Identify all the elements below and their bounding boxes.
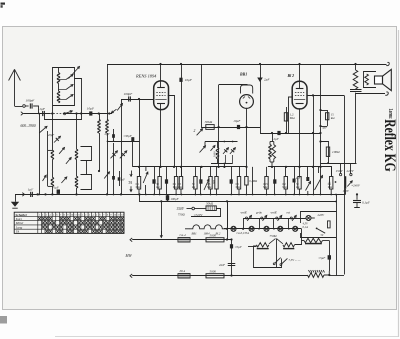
capacitor row x=166.5 bbox=[166, 167, 168, 195]
wire anode to bottom right bbox=[344, 95, 346, 274]
wire heater winding right bbox=[324, 271, 329, 275]
svg-text:Reflex KG: Reflex KG bbox=[381, 119, 398, 172]
node screen tap bbox=[180, 63, 182, 65]
wire y163 link bbox=[321, 163, 357, 165]
selector bottom loop bbox=[254, 246, 282, 268]
wire drop x252 bbox=[252, 167, 254, 195]
wire waveband left vertical bbox=[39, 114, 41, 195]
choke Ca4 bbox=[178, 238, 190, 242]
capacitor 5uF on x231 bbox=[230, 244, 233, 248]
resistor 600 row bbox=[216, 167, 218, 177]
IF trimmer b bbox=[230, 148, 236, 154]
svg-text:rot: rot bbox=[287, 211, 291, 215]
capacitor 10uF screen bbox=[179, 78, 182, 82]
IF box drop to bus bbox=[223, 164, 225, 168]
junction bbox=[51, 193, 53, 195]
wire to primary windings bbox=[248, 246, 257, 248]
wire anode drop x313 bbox=[313, 95, 315, 194]
wire right stub row bbox=[321, 167, 332, 177]
svg-text:weiß: weiß bbox=[241, 211, 247, 215]
switch blade bbox=[317, 228, 326, 233]
wire coil F2 bottom bbox=[76, 188, 78, 194]
switch waveband bbox=[39, 126, 47, 133]
capacitor blob near x58 bbox=[57, 190, 60, 194]
svg-text:≈5µF: ≈5µF bbox=[235, 245, 242, 249]
heater winding bbox=[308, 273, 325, 278]
speaker wire bottom bbox=[356, 93, 386, 95]
speaker terminal bottom bbox=[385, 92, 388, 95]
speaker driver bbox=[375, 76, 383, 84]
bus B junction dots bbox=[76, 194, 78, 196]
coil antenna secondary bbox=[106, 120, 109, 134]
wire heater left join bbox=[307, 274, 309, 277]
wire antenna to plug bbox=[15, 106, 23, 108]
capacitor 4uF row bbox=[294, 167, 296, 195]
node bb1 cap tap bbox=[259, 63, 261, 65]
capacitor 5uF right bbox=[328, 255, 331, 259]
wire lamp feed bbox=[227, 201, 229, 229]
svg-text:Lorenz: Lorenz bbox=[387, 109, 393, 119]
svg-text:5µF: 5µF bbox=[322, 125, 327, 129]
svg-text:MΩ: MΩ bbox=[282, 186, 286, 189]
capacitor row x=154 bbox=[154, 167, 156, 195]
wire bb1 bottom bbox=[246, 108, 248, 166]
lamp 3 bbox=[264, 226, 269, 231]
wire vertical x201.5 bbox=[201, 64, 203, 128]
wire main line bbox=[23, 113, 50, 115]
wire to main line bbox=[33, 106, 38, 114]
tube RENS 1894 bbox=[154, 81, 169, 110]
wire vertical x260 bbox=[260, 64, 262, 127]
svg-text:weiß: weiß bbox=[271, 211, 277, 215]
svg-text:≈240V: ≈240V bbox=[352, 184, 361, 188]
svg-text:≈: ≈ bbox=[329, 181, 331, 185]
transformer core bbox=[350, 89, 362, 91]
junction bbox=[106, 193, 108, 195]
wire main line right part bbox=[63, 113, 112, 115]
primary winding 1 bbox=[257, 243, 269, 247]
svg-text:µF: µF bbox=[122, 177, 126, 181]
node speaker tap bbox=[354, 63, 356, 65]
svg-text:MΩ: MΩ bbox=[236, 186, 240, 189]
capacitor 100pF grid bbox=[128, 96, 130, 101]
lamp 4 bbox=[278, 226, 283, 231]
svg-text:600: 600 bbox=[213, 179, 216, 184]
ground symbol bbox=[15, 194, 17, 201]
wire center vertical x227 bbox=[227, 201, 229, 239]
node bl2 top bbox=[298, 63, 300, 65]
svg-text:RENS 1894: RENS 1894 bbox=[135, 73, 157, 78]
wire top supply bus bbox=[107, 64, 387, 66]
switch contact c bbox=[66, 95, 73, 100]
gray square bottom-left bbox=[0, 316, 7, 324]
IF coil 1000 bbox=[216, 148, 219, 159]
switch contact on main line bbox=[64, 113, 66, 115]
lamp mains upper bbox=[306, 216, 311, 221]
svg-text:kΩ: kΩ bbox=[156, 186, 159, 189]
wire bb1 dome top bbox=[219, 84, 248, 86]
resistor row x=285.8 bbox=[285, 167, 287, 177]
switch f1 bbox=[59, 148, 64, 154]
fuse bbox=[328, 221, 331, 228]
svg-text:MΩ: MΩ bbox=[290, 116, 296, 120]
wire bl2 grid bbox=[289, 97, 293, 133]
svg-text:50kΩ: 50kΩ bbox=[206, 202, 214, 206]
wire anode bb1 line bbox=[202, 127, 261, 129]
wire vertical x113.5 lower bbox=[113, 143, 115, 194]
capacitor plus switch row bbox=[307, 167, 309, 177]
switch row x206 bbox=[204, 179, 209, 190]
trimmer cap 1 bbox=[111, 151, 118, 159]
selector drop 4 bbox=[288, 218, 290, 229]
connector heater 1 bbox=[130, 238, 132, 242]
svg-text:MΩ: MΩ bbox=[207, 186, 211, 189]
speaker cone bbox=[383, 69, 392, 90]
resistor row x=331.2 bbox=[331, 167, 333, 177]
TA input arrows bbox=[131, 171, 133, 177]
resistor 15k bbox=[321, 110, 328, 112]
svg-text:5000: 5000 bbox=[210, 269, 217, 273]
switch on grid drop bbox=[117, 104, 122, 111]
wire bus A bbox=[133, 166, 247, 168]
svg-text:MΩ: MΩ bbox=[173, 186, 177, 189]
wire screen x181 bbox=[181, 64, 183, 177]
svg-text:2µF: 2µF bbox=[105, 132, 110, 136]
wire lamp row drop right bbox=[301, 229, 303, 241]
svg-text:0,1MΩ: 0,1MΩ bbox=[249, 180, 257, 183]
capacitor 1uF ground bbox=[30, 192, 32, 197]
wire upper selector row bbox=[244, 219, 306, 229]
resistor row x=176.1 bbox=[176, 167, 178, 177]
svg-text:kΩ: kΩ bbox=[296, 186, 299, 189]
svg-text:10µF: 10µF bbox=[233, 119, 241, 123]
selector bar bbox=[345, 176, 347, 188]
svg-text:BB1: BB1 bbox=[239, 73, 247, 77]
selector blade 2 bbox=[280, 264, 282, 266]
svg-text:20pF: 20pF bbox=[48, 133, 54, 137]
capacitor 10uF blob bbox=[89, 111, 92, 115]
wire screen drop x139 bbox=[139, 99, 141, 177]
selector drop 2 bbox=[259, 218, 261, 229]
svg-text:100pF: 100pF bbox=[124, 92, 134, 96]
junction bbox=[120, 193, 122, 195]
wire winding right corner bbox=[295, 241, 302, 245]
resistor row x=195.4 bbox=[195, 167, 197, 177]
wire selector to ground bus bbox=[345, 189, 347, 195]
wire 50k loop bbox=[191, 209, 221, 217]
switch big row bbox=[315, 176, 323, 191]
svg-text:MΩ: MΩ bbox=[263, 186, 267, 189]
wire mains box feed bbox=[336, 195, 338, 212]
switch lower bbox=[104, 172, 109, 179]
svg-text:grün: grün bbox=[256, 211, 262, 215]
resistor row x=159.6 bbox=[159, 167, 161, 177]
capacitor small b bbox=[118, 177, 121, 180]
choke Dr4 bbox=[178, 274, 190, 278]
wire coil box to main line bbox=[74, 79, 81, 114]
wire bus A left rise bbox=[132, 141, 134, 167]
wire return loop below main line bbox=[45, 114, 82, 120]
capacitor small a bbox=[112, 176, 115, 180]
capacitor row x=231.2 bbox=[231, 167, 233, 195]
connector on ground bus bbox=[22, 193, 24, 197]
wire corner to y133 bbox=[261, 127, 322, 134]
wire bb1 grid vertical bbox=[218, 85, 220, 167]
wire between boxes bbox=[86, 161, 88, 175]
switch f3 bbox=[61, 177, 66, 183]
resistor 100 bbox=[321, 142, 329, 164]
svg-text:150V: 150V bbox=[176, 207, 184, 211]
svg-text:0,1A: 0,1A bbox=[303, 225, 309, 229]
junction bbox=[37, 193, 39, 195]
svg-text:2mF: 2mF bbox=[219, 263, 226, 267]
centre tap tent bbox=[269, 239, 276, 244]
wire bus C bbox=[140, 194, 337, 201]
coil F2a boxed bbox=[75, 149, 78, 159]
selector blade 1 bbox=[273, 263, 275, 265]
bracket left bbox=[47, 131, 49, 186]
svg-text:750Ω: 750Ω bbox=[178, 212, 186, 216]
antenna bbox=[14, 70, 16, 106]
node tube top bbox=[159, 63, 161, 65]
wire y141 link bbox=[108, 141, 140, 143]
wire bus A right segment bbox=[268, 166, 321, 168]
wire ground bus B bbox=[15, 194, 346, 196]
coil F2b boxed bbox=[75, 176, 78, 188]
lamp 5 lower bbox=[293, 226, 298, 231]
speaker terminal top bbox=[386, 62, 389, 65]
svg-text:≈720V: ≈720V bbox=[194, 213, 204, 217]
resistor 5000 heater1 bbox=[206, 238, 224, 242]
svg-text:150V: 150V bbox=[336, 169, 344, 173]
coil stub taps bbox=[59, 79, 67, 81]
speaker secondary loop bbox=[364, 72, 377, 88]
coil L2 bbox=[57, 91, 60, 103]
resistor row x=239 bbox=[239, 167, 241, 177]
svg-text:≈5µF: ≈5µF bbox=[319, 256, 326, 260]
svg-text:1000: 1000 bbox=[213, 151, 216, 157]
primary winding 2 bbox=[283, 243, 295, 247]
svg-text:750Ω: 750Ω bbox=[270, 234, 278, 238]
coil L1 bbox=[57, 73, 60, 84]
capacitor row x=274.8 bbox=[274, 167, 276, 195]
svg-text:220V: 220V bbox=[347, 169, 355, 173]
wire bl2 top bbox=[299, 64, 301, 88]
coil F1b bbox=[51, 177, 54, 186]
wire 150V to 50k bbox=[195, 208, 207, 210]
svg-text:2µF: 2µF bbox=[274, 137, 279, 141]
resistor 50k supply bbox=[206, 206, 216, 211]
svg-text:10µF: 10µF bbox=[185, 78, 193, 82]
wire coil down b bbox=[107, 133, 109, 194]
capacitor 100pF antenna bbox=[29, 103, 31, 108]
capacitor 2uF marker bbox=[257, 78, 263, 83]
wire grid drop bbox=[121, 99, 123, 194]
resistor row x=181 bbox=[181, 167, 183, 177]
svg-text:MΩ: MΩ bbox=[178, 186, 182, 189]
selector contact weiss2 bbox=[276, 217, 278, 219]
svg-text:100Ω: 100Ω bbox=[332, 150, 340, 154]
svg-text:100µF: 100µF bbox=[171, 197, 179, 201]
svg-text:Bl 2: Bl 2 bbox=[287, 74, 295, 78]
svg-text:MΩ: MΩ bbox=[328, 186, 332, 189]
capacitor 30uF bbox=[131, 137, 134, 141]
dashed link on main line bbox=[50, 113, 63, 115]
svg-text:30kΩ: 30kΩ bbox=[205, 120, 213, 124]
wire left column bbox=[52, 105, 54, 150]
capacitor 100uF bbox=[166, 195, 169, 200]
wire heater 1 bbox=[132, 239, 231, 241]
wire tube top to bus bbox=[160, 64, 162, 88]
svg-text:110V: 110V bbox=[343, 189, 350, 193]
wire grid line bbox=[121, 99, 154, 101]
resistor 5000 heater2 bbox=[206, 274, 224, 278]
switch 2 bbox=[197, 129, 203, 136]
switch contact a bbox=[66, 75, 73, 80]
tube Bl2 bbox=[292, 81, 307, 109]
svg-text:100pF: 100pF bbox=[26, 99, 36, 103]
coil box outline bbox=[52, 68, 74, 106]
IF switch a bbox=[200, 146, 206, 153]
wire heater 2 bbox=[132, 275, 307, 277]
wire primary bottom down bbox=[355, 93, 357, 163]
wire cathode down bbox=[160, 103, 162, 167]
resistor row x=299.5 bbox=[299, 167, 301, 177]
capacitor 10uF coupling bbox=[237, 125, 240, 129]
resistor 30k bbox=[206, 125, 214, 130]
photo edge right bbox=[398, 30, 400, 337]
svg-text:Bl.2: Bl.2 bbox=[216, 231, 221, 235]
wire lamp row lower bbox=[224, 228, 302, 230]
corner mark top-left bbox=[1, 3, 6, 5]
wire bus left drop bbox=[107, 64, 109, 120]
resistor 1M grid leak bbox=[286, 107, 288, 133]
variable arrow of coil box bbox=[69, 67, 80, 79]
switch contact near connector bbox=[111, 109, 116, 113]
centre tap drop bbox=[276, 239, 278, 268]
wire center vertical x231 bbox=[231, 240, 233, 276]
wire bl2 cathode bbox=[299, 109, 301, 167]
switch coil2 left bbox=[43, 175, 47, 181]
svg-text:5000: 5000 bbox=[210, 233, 217, 237]
wire lamp to mains box bbox=[311, 217, 314, 219]
svg-text:MΩ: MΩ bbox=[136, 186, 140, 189]
tube BB1 bbox=[240, 95, 254, 109]
svg-text:≈30µF: ≈30µF bbox=[124, 134, 132, 138]
wire mid column bbox=[76, 114, 78, 150]
wire vertical x320.5 bbox=[320, 64, 322, 194]
resistor row x=210.5 bbox=[210, 167, 212, 177]
svg-text:1µF: 1µF bbox=[28, 188, 33, 192]
capacitor 1uF bbox=[42, 111, 44, 116]
connector heater 2 bbox=[130, 274, 132, 278]
junction bbox=[98, 170, 100, 172]
coil F1a bbox=[51, 150, 54, 159]
capacitor 2uF to grid bbox=[277, 131, 280, 135]
junction node bbox=[98, 112, 100, 114]
svg-text:600–1900: 600–1900 bbox=[21, 124, 36, 128]
switch table bbox=[14, 212, 124, 233]
capacitor row x=200.9 bbox=[200, 167, 202, 195]
IF box bottom tie bbox=[211, 163, 233, 165]
trimmer arrow left bbox=[54, 136, 61, 142]
mains entry box bbox=[301, 212, 337, 238]
plug contact bbox=[23, 105, 26, 108]
svg-text:10µF: 10µF bbox=[87, 107, 95, 111]
capacitor 2mF bbox=[228, 263, 236, 265]
switch f2 bbox=[66, 158, 71, 164]
wire coil down a bbox=[99, 133, 101, 171]
svg-text:2: 2 bbox=[194, 129, 196, 133]
svg-text:kΩ: kΩ bbox=[192, 186, 195, 189]
transformer primary winding bbox=[355, 64, 357, 70]
selector contact gruen bbox=[261, 217, 263, 219]
svg-text:Ca.4: Ca.4 bbox=[180, 233, 187, 237]
IF box top wire bbox=[205, 141, 238, 143]
selector contact rot bbox=[290, 217, 292, 219]
coil antenna primary bbox=[98, 120, 101, 134]
svg-text:Dr.4: Dr.4 bbox=[179, 269, 186, 273]
arrow drop x161 bbox=[161, 201, 163, 236]
trimmer cap 2 bbox=[120, 151, 127, 159]
capacitor 2uF small bbox=[112, 134, 115, 138]
svg-text:1µF: 1µF bbox=[39, 107, 46, 111]
capacitor 0.1uF output bbox=[356, 194, 358, 199]
wire anode bbox=[168, 96, 175, 167]
IF switch b bbox=[211, 146, 216, 151]
wire bl2 anode bbox=[307, 95, 344, 97]
wire tap a bbox=[340, 163, 342, 173]
heater bumps bbox=[190, 225, 228, 229]
winding mains right bbox=[304, 238, 323, 242]
junction bbox=[44, 193, 46, 195]
svg-text:220V: 220V bbox=[318, 213, 326, 217]
svg-text:BB1: BB1 bbox=[192, 231, 198, 235]
selector contact weiss bbox=[246, 217, 248, 219]
svg-text:Ca.0,135A: Ca.0,135A bbox=[237, 231, 250, 235]
switch contact b bbox=[66, 85, 73, 90]
photo edge bottom bbox=[55, 336, 398, 338]
IF trimmer a bbox=[223, 148, 229, 154]
resistor row x=266.5 bbox=[266, 167, 268, 177]
wire mains box bottom drop bbox=[336, 238, 338, 276]
svg-text:TA: TA bbox=[16, 230, 20, 234]
selector drop 3 bbox=[273, 218, 275, 229]
connector main input bbox=[21, 112, 23, 116]
lamp 2 bbox=[249, 226, 254, 231]
resistor 0,1M vertical bbox=[246, 167, 248, 177]
lamp 1 bbox=[231, 226, 236, 231]
choke and resistor vertical bbox=[269, 145, 272, 159]
wire selector drop bbox=[329, 241, 331, 272]
switch row x146 bbox=[145, 167, 147, 171]
wire tap b bbox=[350, 163, 352, 173]
svg-text:MW: MW bbox=[125, 254, 133, 258]
resistor row x=139 bbox=[139, 167, 141, 177]
